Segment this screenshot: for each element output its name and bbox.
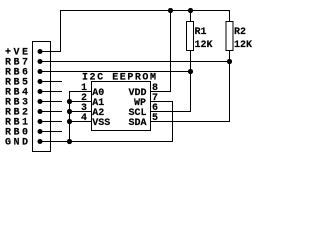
wire pin4 VSS: [69, 121, 92, 123]
wire +VE pin stub: [40, 51, 61, 53]
wire pin1 A0: [69, 91, 92, 93]
wire pin7 WP stub: [151, 101, 174, 103]
junction dot RB3 pin: [38, 99, 43, 104]
wire GND rail to WP riser: [40, 141, 173, 143]
resistor R2 body: [226, 22, 233, 51]
junction dot RB0 pin: [38, 129, 43, 134]
wire R2 top stub: [229, 10, 231, 22]
junction dot +VE pin: [38, 49, 43, 54]
svg-text:12K: 12K: [234, 40, 252, 51]
svg-text:SDA: SDA: [129, 118, 147, 129]
wire WP riser down to GND: [172, 101, 174, 142]
junction dot GND pin: [38, 139, 43, 144]
wire +VE riser: [60, 10, 62, 52]
wire VDD riser: [170, 10, 172, 92]
connector J1 body: [33, 42, 51, 152]
IC U1 I2C EEPROM body: [92, 82, 151, 131]
wire pin6 SCL stub: [151, 111, 192, 113]
junction dot bus GND: [67, 139, 72, 144]
wire ground bus vertical (A0 A1 A2 VSS): [69, 91, 71, 142]
svg-text:12K: 12K: [195, 40, 213, 51]
junction dot bus VSS: [67, 119, 72, 124]
wire +VE top rail: [60, 10, 230, 12]
junction dot RB6-R1 riser: [188, 69, 193, 74]
wire pin2 A1: [69, 101, 92, 103]
junction dot bus A2: [67, 109, 72, 114]
junction dot RB6 pin: [38, 69, 43, 74]
wire RB0 stub: [40, 131, 62, 133]
wire R1 top stub: [190, 10, 192, 22]
wire pin5 SDA stub: [151, 121, 231, 123]
svg-text:GND: GND: [5, 138, 28, 149]
wire RB3 stub: [40, 101, 62, 103]
wire RB2 stub: [40, 111, 62, 113]
junction dot bus A1: [67, 99, 72, 104]
wire R1 riser: [190, 50, 192, 112]
junction dot VDD riser on top rail: [168, 8, 173, 13]
junction dot RB7 pin: [38, 59, 43, 64]
junction dot RB2 pin: [38, 109, 43, 114]
wire RB1 stub: [40, 121, 62, 123]
svg-text:4: 4: [81, 113, 87, 124]
wire R2 riser: [229, 50, 231, 122]
wire pin8 VDD stub: [151, 91, 172, 93]
wire RB6 to R1 riser (SCL net): [40, 71, 191, 73]
resistor R1 body: [187, 22, 194, 51]
svg-text:VSS: VSS: [92, 118, 110, 129]
svg-text:I2C EEPROM: I2C EEPROM: [82, 72, 156, 83]
wire pin3 A2: [69, 111, 92, 113]
wire RB7 to R2 riser (SDA net): [40, 61, 230, 63]
junction dot RB1 pin: [38, 119, 43, 124]
svg-text:R2: R2: [234, 27, 246, 38]
wire RB5 stub: [40, 81, 62, 83]
wire RB4 stub: [40, 91, 62, 93]
junction dot RB4 pin: [38, 89, 43, 94]
junction dot RB5 pin: [38, 79, 43, 84]
junction dot RB7-R2 riser: [227, 59, 232, 64]
svg-text:R1: R1: [195, 27, 207, 38]
junction dot R1 on top rail: [188, 8, 193, 13]
svg-text:5: 5: [152, 113, 158, 124]
